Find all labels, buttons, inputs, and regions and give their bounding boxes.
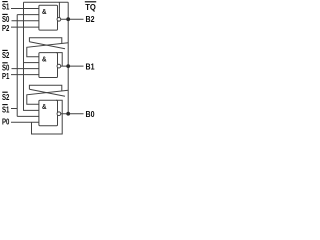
wire right bus vertical from top corner down to node B0	[67, 2, 69, 114]
gate U2 NAND body	[39, 53, 58, 78]
wire B2 branch diagonal to gate2 pin1	[27, 43, 68, 57]
node S2bar second label	[2, 92, 10, 102]
node B2 junction dot	[66, 17, 70, 21]
wire S0 input to gate1 pin3	[12, 20, 39, 22]
wire rung loop above gate2	[29, 38, 61, 44]
svg-text:P1: P1	[2, 71, 10, 81]
wire rung loop above gate3	[29, 85, 61, 91]
node S2bar label	[2, 50, 10, 60]
wire B1 output	[61, 65, 84, 67]
wire TQ branch down into gate1 bubble	[58, 2, 60, 17]
svg-text:S2: S2	[2, 50, 10, 60]
gate U2 output inversion bubble	[57, 64, 61, 68]
svg-text:B2: B2	[86, 14, 95, 24]
node S1bar label	[2, 1, 10, 11]
wire S1 input to gate1 pin1	[11, 8, 39, 10]
gate U1 NAND body	[39, 5, 58, 30]
wire V2 branch to gate2 pin2	[24, 62, 39, 64]
svg-text:&: &	[42, 104, 47, 111]
svg-text:P2: P2	[2, 23, 10, 33]
wire V1 bottom corner to gate3 pin3	[17, 115, 39, 117]
wire top TQ net horizontal	[24, 1, 69, 3]
node B1 junction dot	[66, 64, 70, 68]
wire B0 output	[61, 113, 84, 115]
wire V1 top corner to gate1 pin2	[17, 14, 39, 16]
node S0bar label	[2, 14, 10, 24]
svg-text:&: &	[42, 56, 47, 63]
node B0 junction dot	[66, 112, 70, 116]
wire B0 tap up to gate3 top edge	[56, 100, 62, 114]
wire B0 under-loop below gate3	[32, 114, 63, 134]
svg-text:S2: S2	[2, 92, 10, 102]
wire B1 tap up to gate2 top edge	[56, 53, 62, 67]
wire descending diagonal to bus lower	[29, 89, 65, 96]
wire B2 output	[61, 18, 84, 20]
wire P2 input to gate1 pin4	[11, 26, 39, 28]
wire S1 second stub to V1	[11, 108, 17, 110]
gate U1 output inversion bubble	[57, 17, 61, 21]
svg-text:B0: B0	[86, 109, 95, 119]
gate U3 NAND body	[39, 100, 58, 126]
gate U3 output inversion bubble	[57, 112, 61, 116]
wire B1 branch diagonal to gate3 pin1	[27, 90, 68, 104]
svg-text:TQ: TQ	[85, 2, 96, 12]
wire S0 second input to gate2 pin3	[12, 68, 39, 70]
wire P1 input to gate2 pin4	[11, 74, 39, 76]
svg-text:S1: S1	[2, 1, 10, 11]
wire P0 input to gate3 pin4	[11, 121, 39, 123]
node S1bar second label	[2, 104, 10, 114]
svg-text:P0: P0	[2, 117, 10, 127]
wire descending diagonal to bus	[29, 42, 65, 49]
wire V2 bus vertical with corner to gate3 pin2	[24, 2, 39, 110]
svg-text:&: &	[42, 9, 47, 16]
node TQ output label	[85, 2, 96, 12]
svg-text:B1: B1	[86, 61, 95, 71]
wire V1 bus vertical	[16, 15, 18, 117]
svg-text:S1: S1	[2, 104, 10, 114]
node S0bar second label	[2, 63, 10, 73]
